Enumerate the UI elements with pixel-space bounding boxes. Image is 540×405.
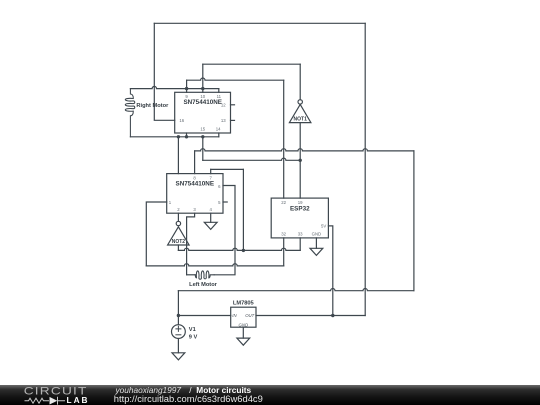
wire IC2 top-left pin stub: [177, 137, 179, 174]
op-amp U1 box: IC1 SN754410NE: [175, 92, 231, 133]
wire ESP32 pin32 drop: [283, 238, 285, 266]
wire ESP32 pin33 drop: [299, 238, 301, 251]
wire NOT1 output to pin10: [203, 63, 300, 65]
wire LM7805 IN line: [178, 315, 230, 317]
wire NOT2 input to ESP32 pin33: [178, 248, 300, 250]
op-amp NOT2 triangle: [168, 227, 190, 245]
wire right motor bottom to pins 15,14: [130, 136, 218, 138]
node NOT1 input junction: [299, 159, 302, 162]
NOT2 bubble: [176, 221, 180, 225]
node pin7/NOT2 junction: [242, 249, 245, 252]
footer bar: [0, 385, 540, 405]
op-amp U3 box: ESP32: [271, 198, 328, 238]
V1 plus sign: [176, 326, 181, 331]
wire LM7805 GND stub: [242, 327, 244, 338]
wire vertical right 5V riser: [364, 23, 366, 315]
ground below IC2 pin4: [204, 222, 217, 229]
wire IC2 pin2 stub: [177, 213, 179, 221]
wire 9V bus horizontal: [178, 289, 414, 291]
wire pin9 stub: [186, 89, 188, 93]
node pin10 junction: [201, 87, 204, 90]
wire pin15 to NOT1 input: [203, 158, 300, 160]
inductor M2 Left Motor coil: [195, 271, 214, 279]
LM7805 pin names: [232, 313, 254, 327]
wire pin7 vertical drop: [211, 169, 244, 250]
node 5V/OUT junction: [331, 314, 334, 317]
wire pin11 stub: [218, 89, 220, 93]
wire right drop 9V: [413, 151, 415, 291]
wire left motor left lead: [187, 274, 196, 276]
wire IC2 pin1 stub and drop: [146, 202, 166, 266]
ground below LM7805: [237, 338, 250, 345]
wire V1 minus to ground: [177, 339, 179, 353]
IC2 pin numbers: [169, 175, 221, 212]
svg-text:http://circuitlab.com/c6s3rd6w: http://circuitlab.com/c6s3rd6w6d4c9: [114, 393, 263, 404]
node V1/IN junction: [177, 314, 180, 317]
wire LM7805 OUT line: [256, 315, 365, 317]
wire NOT1 output vertical: [202, 64, 204, 88]
wire right motor top to pins 9,10,11: [130, 86, 218, 88]
NOT1 bubble: [298, 100, 302, 104]
svg-text:LAB: LAB: [67, 395, 90, 405]
ground below ESP32 GND: [310, 248, 323, 255]
wire NOT1 input vertical to ESP32 pin19: [299, 123, 301, 199]
wire pin6 to left motor right terminal: [214, 186, 235, 275]
node pin9 junction: [185, 87, 188, 90]
IC1 pin numbers: [179, 94, 226, 132]
wire pin8 to 9V bus (horiz): [195, 149, 414, 151]
node IC1 bottom stub junction: [185, 135, 188, 138]
wire vertical 5V left drop to pin16: [154, 23, 174, 120]
wire IC1 bottom-left stub: [186, 133, 188, 137]
node IC2 top stub junction: [177, 135, 180, 138]
wire pin3 jog: [187, 213, 195, 275]
wire pin15 drop: [202, 137, 204, 161]
wire NOT2 output jog: [177, 245, 179, 250]
wire IC2 pin5 stub (n.c.): [223, 201, 227, 203]
wire ESP32 GND stub: [315, 238, 317, 248]
op-amp U4 box: LM7805: [231, 307, 256, 327]
wire IC2 pin4 stub: [210, 213, 212, 222]
wire IC1 pin12 stub (n.c.): [231, 104, 235, 106]
wire pin9 to ESP32 pin22 (horiz): [187, 78, 284, 80]
wire pin8 riser: [194, 151, 196, 174]
wire ESP32 5V stub and drop: [328, 226, 332, 316]
inductor M1 Right Motor coil: [125, 89, 134, 137]
wire IC1 pin13 stub (n.c.): [231, 119, 235, 121]
V1 minus sign: [176, 334, 181, 336]
wire pin14 stub: [218, 133, 220, 137]
logo resistor-diode glyph: [25, 397, 66, 405]
wire pin9 riser: [186, 80, 188, 88]
logo diode triangle: [50, 397, 58, 405]
wire V1 plus riser: [177, 291, 179, 325]
op-amp U2 box: IC2 SN754410NE: [167, 174, 223, 214]
wire ESP32 pin22 vertical: [283, 80, 285, 198]
wire 5V top bus: [154, 22, 365, 24]
wire IC2 pin1 to ESP32 pin32: [146, 264, 283, 266]
ground below V1: [172, 353, 185, 360]
voltage source V1 circle: [172, 325, 186, 339]
op-amp NOT1 triangle: [289, 104, 311, 122]
ESP32 pin numbers: [281, 200, 326, 237]
wire NOT1 bubble riser: [299, 64, 301, 100]
wire pin7 (horiz): [211, 168, 244, 170]
node pin15 junction: [201, 135, 204, 138]
wire pin10 stub: [202, 89, 204, 93]
